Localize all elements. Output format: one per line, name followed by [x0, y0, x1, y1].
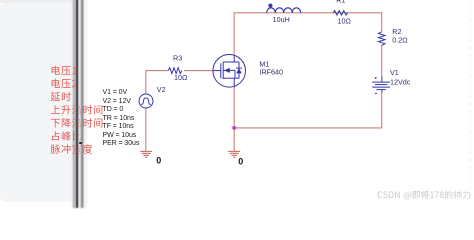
- watermark CSDN @即将178的帅力: [378, 190, 471, 199]
- annotation 电压2: [52, 79, 77, 88]
- wire right column mid (R2 to V1): [381, 45, 383, 76]
- svg-text:10uH: 10uH: [273, 15, 290, 24]
- page boundary dotted line: [470, 5, 472, 196]
- inductor polarity dot: [268, 4, 272, 8]
- svg-text:0: 0: [238, 157, 243, 167]
- fold lines overlay (over annotation text): [74, 0, 84, 206]
- svg-text:0: 0: [156, 156, 161, 166]
- pulse source parameter list: [103, 89, 140, 149]
- wire right column upper (to R2): [381, 13, 383, 32]
- svg-text:10Ω: 10Ω: [174, 73, 188, 82]
- resistor R2 0.2ohm (vertical): [378, 32, 385, 46]
- wire V2 top to R3: [146, 70, 168, 72]
- svg-text:R1: R1: [336, 0, 345, 4]
- svg-text:V2: V2: [157, 85, 166, 94]
- ground 0 left: [140, 151, 152, 157]
- annotation 延时: [51, 92, 71, 101]
- svg-text:10Ω: 10Ω: [338, 16, 352, 25]
- left grey panel: [0, 2, 73, 202]
- inductor L1 10uH: [267, 8, 301, 13]
- svg-text:IRF640: IRF640: [259, 68, 283, 77]
- svg-text:R3: R3: [173, 54, 182, 63]
- cursor speck: [79, 142, 82, 145]
- svg-text:V1: V1: [390, 68, 399, 77]
- source V1 12Vdc battery: [372, 76, 390, 93]
- annotation 下降沿时间: [51, 118, 103, 127]
- resistor R3 10ohm: [168, 68, 182, 74]
- wire gate from R3 to M1: [184, 70, 213, 72]
- annotation 占峰比: [52, 131, 81, 140]
- mosfet M1 IRF640: [213, 55, 246, 88]
- svg-text:0.2Ω: 0.2Ω: [392, 35, 408, 44]
- wire bottom rail: [234, 127, 382, 129]
- wire source column to ground: [233, 87, 235, 152]
- wire drain column: [233, 12, 235, 55]
- annotation 电压1: [52, 66, 77, 75]
- mosfet arrow (body to channel): [224, 68, 230, 73]
- page fold double line: [71, 0, 89, 208]
- ground 0 right: [228, 151, 240, 157]
- wire right column lower (V1 to bottom): [381, 93, 383, 128]
- wire V2 column lower to ground: [145, 108, 147, 151]
- svg-text:12Vdc: 12Vdc: [390, 78, 411, 87]
- wire top rail: [234, 12, 383, 14]
- resistor R1 10ohm: [333, 11, 348, 15]
- wire V2 column upper: [145, 70, 147, 94]
- annotation 上升沿时间: [51, 105, 103, 114]
- mosfet body diode: [236, 68, 242, 73]
- source V2 VPULSE: [139, 94, 153, 108]
- junction node dot: [232, 126, 236, 130]
- annotation 脉冲宽度: [51, 144, 93, 154]
